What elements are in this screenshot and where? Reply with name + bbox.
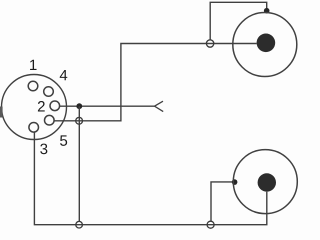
wire junction down to bottom bus (78, 106, 80, 221)
crossing ring B (206, 40, 213, 47)
wire pin 5 up and right to top RCA tip (54, 44, 257, 121)
shield branch to bottom RCA body (211, 182, 235, 221)
solder dot on bottom RCA body (232, 179, 238, 185)
crossing ring A (76, 117, 83, 124)
pin 4 label (60, 70, 68, 80)
shield branch to top RCA body (210, 2, 267, 40)
wire pin 3 along bottom to bottom RCA tip (34, 132, 266, 225)
DIN key notch (0, 107, 3, 118)
pin 3 (29, 123, 39, 133)
pin 5 (45, 115, 55, 125)
pin 1 label (30, 60, 36, 70)
wire pin 2 to cut end (60, 105, 155, 107)
junction dot on pin 2 wire (76, 103, 82, 109)
pin 2 (50, 101, 60, 111)
pin 5 label (60, 135, 67, 145)
pin 2 label (38, 101, 45, 111)
pin 3 label (40, 144, 47, 155)
crossing ring D (76, 221, 83, 228)
pin 4 (44, 87, 54, 97)
bottom RCA jack shell (233, 150, 297, 214)
cut cable fork (155, 101, 164, 111)
solder dot on top RCA body (264, 8, 270, 14)
pin 1 (28, 81, 38, 91)
top RCA jack shell (233, 13, 297, 77)
bottom RCA center pin (258, 173, 276, 191)
crossing ring C (207, 221, 214, 228)
DIN plug shell J1 (2, 75, 67, 140)
top RCA center pin (257, 34, 276, 53)
